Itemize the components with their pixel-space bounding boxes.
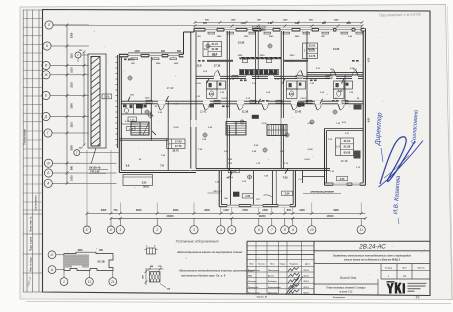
svg-text:31.38: 31.38 — [211, 47, 218, 51]
svg-text:950: 950 — [203, 22, 208, 25]
svg-text:1Б: 1Б — [254, 27, 257, 30]
svg-text:5: 5 — [231, 228, 233, 232]
svg-text:890: 890 — [347, 22, 352, 25]
svg-text:7.63: 7.63 — [282, 175, 288, 179]
svg-text:Подп. и дата: Подп. и дата — [31, 236, 33, 251]
svg-text:3940: 3940 — [212, 54, 218, 57]
svg-text:890: 890 — [177, 50, 182, 53]
svg-text:1300: 1300 — [262, 209, 268, 212]
svg-text:14.00: 14.00 — [307, 148, 313, 151]
svg-text:43: 43 — [403, 274, 407, 278]
svg-text:АС-3В: АС-3В — [97, 261, 105, 264]
svg-text:Агеев: Агеев — [268, 275, 275, 278]
svg-text:Н.контр.: Н.контр. — [248, 281, 257, 283]
svg-text:3300: 3300 — [70, 32, 73, 38]
svg-text:6.60: 6.60 — [369, 117, 371, 122]
svg-text:1560: 1560 — [70, 103, 73, 109]
svg-text:3300: 3300 — [70, 145, 73, 151]
svg-text:План типовых этажей 1 секции: План типовых этажей 1 секции — [327, 287, 366, 290]
svg-text:05.14: 05.14 — [304, 280, 310, 283]
svg-text:А': А' — [50, 253, 54, 257]
svg-text:электрощитовая: электрощитовая — [310, 190, 334, 193]
svg-text:9.9: 9.9 — [126, 164, 130, 168]
svg-text:2.80: 2.80 — [142, 183, 147, 185]
svg-text:Листов: Листов — [417, 268, 425, 270]
svg-text:2700: 2700 — [242, 209, 248, 212]
svg-text:12.42: 12.42 — [200, 110, 207, 114]
svg-text:2310: 2310 — [70, 82, 73, 88]
svg-text:21: 21 — [110, 280, 115, 284]
svg-text:Рук.группы: Рук.группы — [248, 292, 260, 294]
svg-text:8: 8 — [284, 228, 286, 232]
svg-text:1.06: 1.06 — [104, 95, 110, 99]
svg-text:4.10: 4.10 — [338, 90, 343, 93]
svg-text:Кол.уч: Кол.уч — [258, 264, 265, 266]
svg-text:2.04: 2.04 — [285, 193, 290, 196]
svg-text:12.42: 12.42 — [195, 82, 201, 85]
svg-text:жилых домов по ул.Фомина в г.: жилых домов по ул.Фомина в г.Бресте МЖД-… — [343, 259, 401, 262]
svg-text:21.01: 21.01 — [344, 139, 351, 143]
svg-text:2110: 2110 — [70, 122, 73, 128]
svg-text:2110: 2110 — [70, 53, 73, 59]
svg-text:1030: 1030 — [70, 175, 73, 181]
svg-text:16.18: 16.18 — [341, 159, 348, 163]
svg-text:Копировал: Копировал — [333, 297, 346, 299]
svg-text:Подпись: Подпись — [290, 264, 299, 266]
svg-text:1.04: 1.04 — [231, 170, 236, 173]
svg-text:1120: 1120 — [240, 22, 246, 25]
svg-text:- Вентиляционные каналы во вну: - Вентиляционные каналы во внутренних ст… — [176, 250, 243, 254]
svg-text:3000: 3000 — [136, 209, 142, 212]
svg-text:№док: №док — [280, 263, 286, 266]
svg-text:в осях 1-11: в осях 1-11 — [340, 291, 354, 294]
svg-text:38.70: 38.70 — [172, 149, 179, 153]
svg-text:7.8: 7.8 — [160, 164, 164, 168]
svg-text:над панелью-бандом корп. Св.: над панелью-бандом корп. Св. п. 9 — [181, 273, 226, 277]
svg-text:Изм: Изм — [250, 264, 254, 266]
svg-text:2-3: 2-3 — [336, 145, 341, 149]
svg-text:5.04: 5.04 — [227, 175, 233, 179]
svg-text:800: 800 — [287, 209, 292, 212]
svg-text:1.05: 1.05 — [245, 195, 250, 198]
svg-text:1900: 1900 — [299, 209, 305, 212]
svg-text:Пинчукова: Пинчукова — [268, 270, 280, 272]
svg-text:1510: 1510 — [70, 67, 73, 73]
svg-text:12200: 12200 — [259, 215, 267, 218]
svg-text:11.36: 11.36 — [242, 110, 249, 114]
svg-text:17.76: 17.76 — [175, 144, 182, 148]
svg-text:1340: 1340 — [283, 19, 289, 22]
svg-text:Проверил: Проверил — [248, 287, 259, 289]
svg-text:12.42: 12.42 — [307, 122, 313, 125]
svg-text:3-96: 3-96 — [268, 22, 273, 25]
svg-text:21.01: 21.01 — [309, 44, 316, 48]
svg-text:15.63: 15.63 — [221, 98, 227, 100]
svg-text:1600: 1600 — [145, 98, 151, 100]
svg-text:Б': Б' — [86, 228, 89, 232]
svg-text:44.76: 44.76 — [309, 54, 316, 58]
svg-text:ГАП: ГАП — [248, 275, 253, 278]
svg-text:2В.24-АС: 2В.24-АС — [358, 244, 386, 251]
svg-text:3940: 3940 — [238, 54, 244, 57]
svg-text:Лист: Лист — [270, 264, 275, 266]
svg-text:980: 980 — [70, 165, 73, 170]
svg-text:Согласовано: Согласовано — [24, 128, 27, 145]
svg-text:4.50: 4.50 — [368, 57, 371, 62]
svg-text:ОК (В+Н): ОК (В+Н) — [89, 166, 100, 170]
svg-text:Условные обозначения: Условные обозначения — [175, 239, 219, 244]
svg-text:05.14: 05.14 — [304, 286, 310, 289]
svg-text:24000: 24000 — [167, 215, 175, 218]
svg-text:Формат А1: Формат А1 — [257, 296, 269, 299]
svg-text:12.42: 12.42 — [295, 110, 302, 114]
svg-text:11: 11 — [360, 228, 364, 232]
svg-text:05.14: 05.14 — [304, 291, 310, 294]
svg-text:1ж: 1ж — [167, 142, 171, 146]
svg-text:Шведова: Шведова — [268, 292, 278, 294]
svg-text:3000: 3000 — [173, 209, 179, 212]
svg-text:21.21: 21.21 — [211, 42, 218, 46]
svg-text:1340: 1340 — [231, 19, 237, 22]
svg-text:13.30: 13.30 — [333, 47, 340, 51]
svg-text:РВ 1-б: РВ 1-б — [214, 190, 222, 193]
svg-text:А': А' — [109, 228, 113, 232]
svg-text:7471-АГ: 7471-АГ — [90, 169, 101, 173]
svg-text:1100: 1100 — [223, 209, 229, 212]
svg-text:17.18: 17.18 — [214, 64, 221, 68]
svg-text:14.63: 14.63 — [300, 97, 306, 100]
svg-text:2: 2 — [155, 228, 158, 232]
svg-text:- Монолитные железобетонные уч: - Монолитные железобетонные участки, рас… — [178, 269, 254, 273]
svg-text:990: 990 — [161, 50, 166, 53]
svg-text:14.00: 14.00 — [304, 158, 310, 161]
svg-text:13.30: 13.30 — [238, 41, 245, 45]
svg-text:05.14: 05.14 — [304, 269, 310, 272]
svg-text:15.63: 15.63 — [173, 127, 179, 129]
svg-text:Лист: Лист — [402, 268, 407, 270]
svg-text:3000: 3000 — [101, 209, 107, 212]
svg-text:Ребкова: Ребкова — [268, 280, 277, 283]
svg-text:3: 3 — [193, 228, 195, 232]
svg-text:Разработал: Разработал — [248, 269, 261, 272]
svg-text:Инв. № подл.: Инв. № подл. — [30, 256, 33, 272]
svg-text:1300: 1300 — [134, 50, 140, 53]
svg-text:Согласовано: Согласовано — [35, 195, 38, 211]
svg-text:6: 6 — [258, 228, 260, 232]
svg-text:Жилой дом: Жилой дом — [339, 276, 357, 280]
svg-text:11.36: 11.36 — [261, 123, 267, 125]
svg-text:1: 1 — [119, 228, 121, 232]
svg-text:1.20: 1.20 — [344, 83, 349, 86]
svg-text:3-96: 3-96 — [295, 22, 300, 25]
svg-text:3.00: 3.00 — [209, 94, 214, 96]
svg-text:4: 4 — [220, 228, 222, 232]
svg-text:Приложение к м-14-65: Приложение к м-14-65 — [379, 12, 422, 18]
svg-text:Кожемякина: Кожемякина — [268, 287, 281, 289]
svg-text:12.42: 12.42 — [233, 122, 239, 125]
svg-text:05.14: 05.14 — [304, 275, 310, 278]
svg-text:1: 1 — [63, 280, 65, 284]
svg-text:51.08: 51.08 — [344, 145, 351, 149]
svg-text:12.20: 12.20 — [308, 47, 315, 51]
svg-text:980: 980 — [322, 22, 327, 25]
svg-text:Возведение монолитных железобе: Возведение монолитных железобетонных сте… — [333, 254, 411, 257]
svg-text:1820: 1820 — [260, 55, 266, 57]
svg-text:17.43: 17.43 — [175, 139, 182, 143]
svg-text:1245: 1245 — [334, 19, 340, 22]
svg-text:Стадия: Стадия — [385, 268, 393, 270]
svg-text:10: 10 — [310, 228, 314, 232]
svg-text:3000: 3000 — [204, 209, 210, 212]
svg-text:3820: 3820 — [290, 55, 296, 57]
svg-text:Взам. инв. №: Взам. инв. № — [30, 216, 33, 232]
svg-text:700: 700 — [113, 209, 118, 212]
svg-text:1В: 1В — [261, 27, 264, 30]
svg-text:12.8: 12.8 — [197, 65, 202, 68]
svg-text:09.81: 09.81 — [143, 187, 149, 189]
svg-text:4000: 4000 — [77, 249, 83, 252]
svg-text:3.00: 3.00 — [289, 94, 294, 96]
svg-text:17.43: 17.43 — [167, 86, 174, 90]
svg-text:11: 11 — [88, 280, 92, 284]
svg-text:2': 2' — [76, 53, 80, 57]
svg-text:14500: 14500 — [327, 215, 335, 218]
svg-text:60.28: 60.28 — [344, 151, 351, 155]
svg-text:43: 43 — [416, 296, 420, 300]
svg-text:2.05: 2.05 — [340, 178, 345, 181]
svg-text:9: 9 — [292, 228, 294, 232]
svg-text:4900: 4900 — [333, 209, 339, 212]
